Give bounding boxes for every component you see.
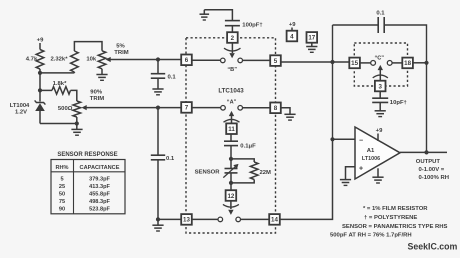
svg-text:12: 12 (227, 193, 234, 200)
svg-text:4.7k: 4.7k (26, 56, 38, 62)
svg-text:+9: +9 (289, 22, 296, 28)
svg-text:5: 5 (274, 58, 278, 65)
svg-text:10k: 10k (86, 56, 97, 62)
svg-text:A1: A1 (367, 148, 375, 154)
svg-text:LT1006: LT1006 (362, 156, 380, 162)
svg-text:“C”: “C” (374, 55, 384, 61)
svg-text:500pF AT RH = 76% 1.7pF/RH: 500pF AT RH = 76% 1.7pF/RH (330, 233, 412, 239)
svg-text:498.3pF: 498.3pF (89, 199, 110, 205)
svg-text:TRIM: TRIM (114, 50, 128, 56)
svg-text:90%: 90% (90, 90, 103, 96)
svg-text:0-1.00V =: 0-1.00V = (419, 167, 445, 173)
svg-text:SENSOR = PANAMETRICS TYPE RHS: SENSOR = PANAMETRICS TYPE RHS (342, 224, 448, 230)
svg-text:† = POLYSTYRENE: † = POLYSTYRENE (364, 215, 417, 221)
svg-text:−: − (359, 137, 363, 144)
svg-text:15: 15 (351, 60, 358, 67)
svg-text:90: 90 (59, 206, 65, 212)
svg-text:LTC1043: LTC1043 (218, 87, 244, 94)
svg-text:22M: 22M (260, 170, 272, 176)
svg-text:10pF†: 10pF† (390, 100, 407, 106)
svg-text:RH%: RH% (55, 165, 68, 171)
svg-text:SeekIC.com: SeekIC.com (408, 241, 458, 251)
svg-text:5: 5 (60, 176, 63, 182)
svg-text:OUTPUT: OUTPUT (416, 159, 441, 165)
svg-text:2.32k*: 2.32k* (50, 56, 68, 62)
svg-text:25: 25 (59, 184, 65, 190)
svg-text:50: 50 (59, 191, 65, 197)
svg-text:455.8pF: 455.8pF (89, 191, 110, 197)
svg-text:0.1: 0.1 (166, 156, 175, 162)
svg-text:0-100% RH: 0-100% RH (419, 175, 449, 181)
svg-text:TRIM: TRIM (90, 96, 104, 102)
svg-text:3: 3 (378, 83, 382, 90)
svg-text:0.1μF: 0.1μF (240, 144, 256, 150)
svg-text:0.1: 0.1 (168, 74, 177, 80)
svg-text:523.8pF: 523.8pF (89, 206, 110, 212)
svg-text:“A”: “A” (227, 100, 237, 106)
svg-text:* = 1% FILM RESISTOR: * = 1% FILM RESISTOR (363, 206, 428, 212)
svg-text:413.3pF: 413.3pF (89, 184, 110, 190)
svg-text:100pF†: 100pF† (242, 23, 262, 29)
svg-text:+: + (359, 165, 363, 172)
svg-text:1.2V: 1.2V (15, 110, 27, 116)
svg-text:500Ω: 500Ω (58, 106, 73, 112)
svg-text:CAPACITANCE: CAPACITANCE (80, 165, 120, 171)
svg-text:6: 6 (185, 57, 189, 64)
svg-text:2: 2 (231, 35, 235, 42)
svg-text:4: 4 (290, 33, 294, 40)
svg-text:SENSOR: SENSOR (195, 169, 221, 175)
svg-text:1.8k*: 1.8k* (53, 81, 67, 87)
svg-text:5%: 5% (116, 44, 125, 50)
svg-text:LT1004: LT1004 (10, 103, 30, 109)
svg-text:SENSOR RESPONSE: SENSOR RESPONSE (57, 152, 117, 158)
svg-text:0.1: 0.1 (376, 11, 385, 17)
svg-text:8: 8 (274, 105, 278, 112)
svg-text:“B”: “B” (227, 67, 237, 73)
svg-text:18: 18 (404, 60, 411, 67)
svg-text:13: 13 (183, 217, 190, 224)
svg-text:75: 75 (59, 199, 65, 205)
svg-text:+9: +9 (376, 128, 383, 134)
svg-text:11: 11 (228, 126, 235, 133)
svg-text:7: 7 (185, 105, 189, 112)
svg-text:17: 17 (308, 35, 315, 42)
svg-text:14: 14 (271, 217, 278, 224)
svg-text:379.3pF: 379.3pF (89, 176, 110, 182)
svg-text:+9: +9 (37, 38, 44, 44)
